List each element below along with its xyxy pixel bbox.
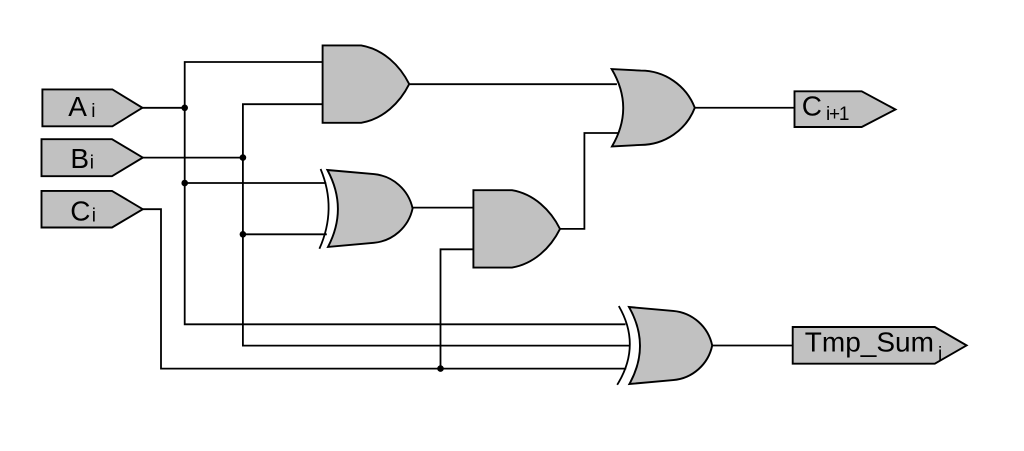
- input tag Ai: [42, 89, 142, 126]
- svg-text:C: C: [70, 195, 90, 226]
- AND gate U1 (top): [323, 45, 410, 122]
- XOR gate U5 input-side double arc: [617, 306, 630, 385]
- XOR gate U2 input-side double arc: [319, 169, 328, 249]
- junction dot A-net branch to XOR1: [181, 180, 188, 187]
- output tag Tmp_Sum_i: [793, 327, 967, 364]
- wire AND2 output to OR1 bottom input: [560, 133, 618, 229]
- wire net A: up to AND1 top input, down to XOR U5 input 1: [185, 62, 626, 324]
- svg-text:i+1: i+1: [826, 104, 849, 125]
- wire OR1 output to C_i+1 tag: [695, 107, 795, 109]
- junction dot A-net at A input wire: [181, 105, 188, 112]
- wire A tag to junction: [142, 107, 184, 109]
- svg-text:i: i: [92, 205, 96, 226]
- svg-text:i: i: [90, 152, 94, 173]
- svg-text:C: C: [802, 91, 822, 122]
- svg-text:Tmp_Sum: Tmp_Sum: [805, 327, 934, 358]
- wire XOR U5 output to Tmp_Sum tag: [712, 345, 793, 347]
- AND gate U3 (center): [473, 190, 560, 267]
- OR gate U4 (top right): [612, 69, 695, 146]
- output tag C_i+1: [795, 91, 896, 127]
- junction dot C-net branch to AND2: [437, 365, 444, 372]
- input tag Bi: [42, 139, 143, 176]
- wire net B: up to AND1 bottom input, down to XOR U5 input 2: [243, 104, 630, 345]
- wire branch C up to AND2 bottom input: [441, 249, 474, 368]
- XOR gate U5 (bottom, 3-input) body: [629, 307, 712, 384]
- svg-text:i: i: [91, 101, 95, 122]
- junction dot B-net branch to XOR1: [240, 231, 247, 238]
- XOR gate U2 (middle) body: [327, 170, 412, 247]
- svg-text:i: i: [938, 344, 942, 365]
- wire AND1 output to OR1 top input: [409, 83, 617, 85]
- svg-text:A: A: [68, 91, 87, 122]
- wire XOR1 output to AND2 top input: [412, 207, 473, 209]
- svg-text:B: B: [70, 143, 89, 174]
- wire branch B to XOR1 bottom input: [243, 233, 327, 235]
- junction dot B-net at B input wire: [240, 154, 247, 161]
- input tag Ci: [42, 191, 143, 228]
- wire net C: tag to XOR U5 input 3: [143, 209, 626, 368]
- wire B tag to junction: [143, 157, 243, 159]
- wire branch A to XOR1 top input: [185, 182, 327, 184]
